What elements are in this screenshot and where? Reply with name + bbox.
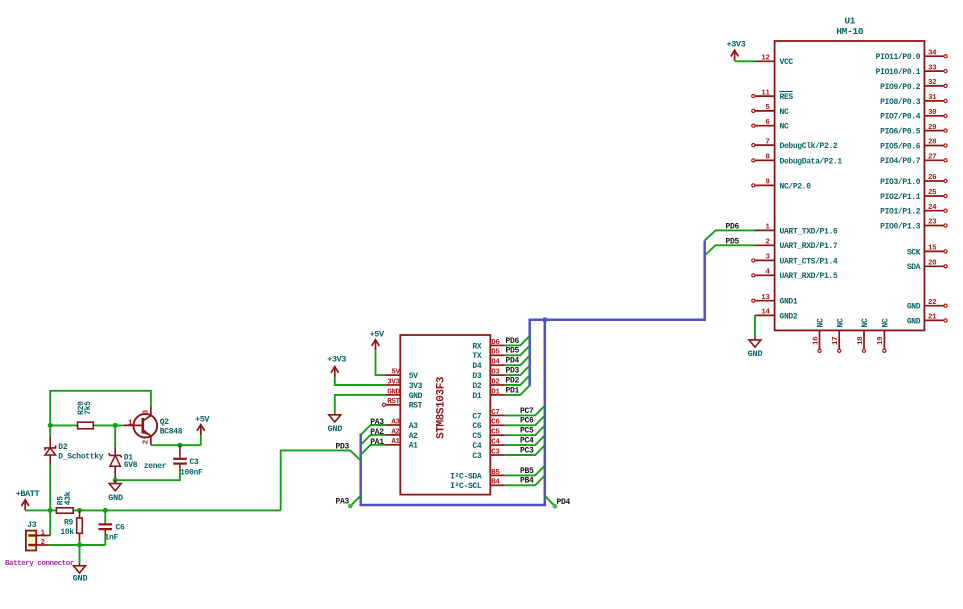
U1 pin 14 (GND2) xyxy=(755,309,798,322)
U1 pin 27 (PIO4/P0.7) xyxy=(880,154,947,167)
wire U2 to PC4 with bus entry xyxy=(505,435,545,445)
svg-text:D1: D1 xyxy=(491,388,500,396)
wire PA3 to U2 with bus entry xyxy=(361,425,386,435)
svg-text:27: 27 xyxy=(928,154,936,162)
resistor R20 xyxy=(77,401,94,429)
wire U1 GND2 to ground xyxy=(754,315,756,340)
svg-text:D5: D5 xyxy=(491,349,500,357)
svg-text:I²C-SCL: I²C-SCL xyxy=(450,482,482,491)
svg-text:GND: GND xyxy=(907,303,921,312)
svg-text:NC: NC xyxy=(882,318,891,327)
svg-text:12: 12 xyxy=(761,55,770,63)
svg-text:PIO9/P0.2: PIO9/P0.2 xyxy=(880,83,921,92)
svg-text:C6: C6 xyxy=(491,419,500,427)
svg-text:A1: A1 xyxy=(409,442,418,451)
wire PD6 to U1 pin1 xyxy=(705,230,755,240)
wire U2 to PC6 with bus entry xyxy=(505,416,545,426)
ground symbol (U1 GND2) xyxy=(748,340,763,359)
svg-text:RST: RST xyxy=(387,398,400,406)
svg-text:PIO3/P1.0: PIO3/P1.0 xyxy=(880,178,921,187)
U1 pin 17 (NC) xyxy=(832,318,845,352)
U2 pin C6 (C6) xyxy=(472,419,505,432)
svg-text:D_Schottky: D_Schottky xyxy=(58,452,104,461)
wire U2 GND pin to ground xyxy=(335,395,386,415)
U2 pin A1 (A1) xyxy=(386,438,419,451)
svg-text:RES: RES xyxy=(780,93,794,102)
wire +5V arrow stem xyxy=(200,435,202,445)
svg-text:PA1: PA1 xyxy=(370,438,384,447)
wire U2 to PC7 with bus entry xyxy=(505,406,545,416)
svg-text:1: 1 xyxy=(128,420,133,428)
svg-text:21: 21 xyxy=(928,314,937,322)
U2 pin D2 (D2) xyxy=(472,378,505,391)
U1 pin 9 (NC/P2.0) xyxy=(752,179,812,192)
svg-text:A1: A1 xyxy=(391,438,400,446)
svg-text:PB4: PB4 xyxy=(520,477,534,486)
node junction emitter/C3 xyxy=(177,443,182,448)
U2 pin C3 (C3) xyxy=(472,448,505,461)
node junction R9 top xyxy=(77,508,82,513)
transistor Q2 BC848 xyxy=(124,406,183,445)
svg-text:RST: RST xyxy=(409,402,423,411)
svg-text:PD5: PD5 xyxy=(726,237,740,246)
ground symbol (U2) xyxy=(327,415,342,434)
svg-text:C5: C5 xyxy=(491,429,500,437)
capacitor C3 100nF xyxy=(173,445,203,478)
U2 pin 5V (5V) xyxy=(386,369,419,382)
svg-text:19: 19 xyxy=(877,336,885,345)
U1 pin 26 (PIO3/P1.0) xyxy=(880,174,947,187)
wire C3 bottom to ground node xyxy=(115,470,180,480)
svg-text:PD5: PD5 xyxy=(506,347,520,356)
svg-text:GND: GND xyxy=(748,349,763,359)
U2 pin 3V3 (3V3) xyxy=(386,378,423,391)
svg-text:5V: 5V xyxy=(391,369,400,377)
svg-text:2: 2 xyxy=(143,439,151,444)
svg-text:PIO8/P0.3: PIO8/P0.3 xyxy=(880,98,921,107)
svg-text:3: 3 xyxy=(143,409,151,414)
svg-text:PIO1/P1.2: PIO1/P1.2 xyxy=(880,208,921,217)
svg-text:D4: D4 xyxy=(472,362,481,371)
wire to bottom ground xyxy=(79,545,81,566)
svg-text:PIO4/P0.7: PIO4/P0.7 xyxy=(880,157,921,166)
bus junction xyxy=(542,317,547,322)
wire PA2 to U2 with bus entry xyxy=(361,435,386,445)
svg-text:GND: GND xyxy=(73,573,88,583)
svg-text:43k: 43k xyxy=(64,491,73,505)
svg-text:GND: GND xyxy=(907,317,921,326)
svg-text:D2: D2 xyxy=(491,378,500,386)
svg-text:31: 31 xyxy=(928,94,937,102)
svg-text:30: 30 xyxy=(928,109,937,117)
svg-text:C5: C5 xyxy=(472,432,481,441)
U2 pin D6 (RX) xyxy=(472,339,505,352)
svg-text:PB5: PB5 xyxy=(520,467,534,476)
wire U2 to PD4 with bus entry xyxy=(505,356,530,366)
svg-text:PC6: PC6 xyxy=(520,417,534,426)
bus entry PA3 (dangling) xyxy=(348,496,361,509)
svg-text:I²C-SDA: I²C-SDA xyxy=(450,472,482,481)
U1 pin 30 (PIO7/P0.4) xyxy=(880,109,947,122)
op-amp U2 STM8S103F3 body xyxy=(400,335,490,495)
svg-text:R9: R9 xyxy=(64,518,74,527)
svg-text:20: 20 xyxy=(928,260,937,268)
svg-text:HM-10: HM-10 xyxy=(836,26,864,37)
wire base node down to D1 xyxy=(114,425,116,446)
U1 pin 19 (NC) xyxy=(877,318,890,352)
wire bottom ground row xyxy=(49,544,106,546)
wire emitter row xyxy=(151,444,201,446)
svg-text:B4: B4 xyxy=(491,479,500,487)
svg-text:C7: C7 xyxy=(472,412,481,421)
wire R9 bottom xyxy=(79,541,81,545)
U1 pin 8 (DebugData/P2.1) xyxy=(752,154,843,167)
power +5V (U2) xyxy=(370,329,385,350)
U1 pin 33 (PIO10/P0.1) xyxy=(876,64,947,77)
svg-text:BC848: BC848 xyxy=(160,427,183,436)
svg-text:PIO6/P0.5: PIO6/P0.5 xyxy=(880,128,921,137)
power +5V (emitter) xyxy=(195,414,210,435)
U1 pin 18 (NC) xyxy=(857,318,870,352)
svg-text:C7: C7 xyxy=(491,409,499,417)
U1 pin 1 (UART_TXD/P1.6) xyxy=(755,224,838,237)
wire +3V3 to U1 VCC xyxy=(735,60,755,62)
wire U2 to PD3 with bus entry xyxy=(505,366,530,376)
svg-text:33: 33 xyxy=(928,64,937,72)
U1 pin 31 (PIO8/P0.3) xyxy=(880,94,947,107)
U1 pin 4 (UART_RXD/P1.5) xyxy=(752,269,838,282)
diode D2 D_Schottky xyxy=(45,436,104,465)
U2 pin RST (RST) xyxy=(382,398,422,411)
svg-text:D3: D3 xyxy=(491,369,500,377)
svg-text:16: 16 xyxy=(812,336,820,345)
U2 pin B4 (I²C-SCL) xyxy=(450,479,505,492)
svg-text:GND: GND xyxy=(327,424,342,434)
U1 pin 22 (GND) xyxy=(907,299,947,312)
svg-text:3V3: 3V3 xyxy=(387,378,400,386)
U1 pin 29 (PIO6/P0.5) xyxy=(880,124,947,137)
svg-text:RX: RX xyxy=(472,342,481,351)
svg-text:13: 13 xyxy=(761,294,770,302)
U2 pin B5 (I²C-SDA) xyxy=(450,469,505,482)
U1 pin 6 (NC) xyxy=(752,119,789,132)
wire D1 to ground xyxy=(114,480,116,483)
wire U2 to PB4 with bus entry xyxy=(505,476,545,486)
svg-text:1nF: 1nF xyxy=(105,534,119,543)
U1 pin 12 (VCC) xyxy=(755,55,793,68)
svg-text:15: 15 xyxy=(928,245,937,253)
svg-text:STM8S103F3: STM8S103F3 xyxy=(436,376,448,439)
svg-text:D2: D2 xyxy=(58,443,68,452)
svg-text:D1: D1 xyxy=(472,392,481,401)
svg-text:6V8: 6V8 xyxy=(124,461,138,470)
wire +BATT rail xyxy=(25,509,281,511)
bus upper run (PD bus to HM-10) xyxy=(530,241,705,387)
node junction R9 bottom xyxy=(77,543,82,548)
svg-text:GND: GND xyxy=(108,493,123,503)
U1 pin 11 (RES) xyxy=(752,89,794,102)
svg-text:+5V: +5V xyxy=(370,329,385,339)
svg-text:zener: zener xyxy=(144,462,167,471)
wire U2 to PD2 with bus entry xyxy=(505,375,530,385)
svg-text:C4: C4 xyxy=(472,442,481,451)
wire PA1 to U2 with bus entry xyxy=(361,445,386,455)
U2 pin D5 (TX) xyxy=(472,349,505,362)
svg-text:A2: A2 xyxy=(409,432,418,441)
U2 pin C5 (C5) xyxy=(472,429,505,442)
svg-text:17: 17 xyxy=(832,337,840,345)
svg-text:+5V: +5V xyxy=(195,414,210,424)
svg-text:C3: C3 xyxy=(189,458,199,467)
resistor R9 10k xyxy=(60,510,82,541)
svg-text:23: 23 xyxy=(928,219,937,227)
svg-text:PC4: PC4 xyxy=(520,437,534,446)
power +3V3 (U2) xyxy=(327,355,346,378)
svg-text:UART_TXD/P1.6: UART_TXD/P1.6 xyxy=(780,227,838,236)
resistor R5 43k xyxy=(56,491,73,513)
wire PD3 (battery sense) with bus entry xyxy=(281,450,361,510)
U1 pin 3 (UART_CTS/P1.4) xyxy=(752,254,838,267)
svg-text:3V3: 3V3 xyxy=(409,382,423,391)
svg-text:Q2: Q2 xyxy=(160,418,170,427)
svg-text:32: 32 xyxy=(928,79,937,87)
svg-text:PD6: PD6 xyxy=(506,337,520,346)
svg-text:29: 29 xyxy=(928,124,937,132)
svg-text:UART_RXD/P1.7: UART_RXD/P1.7 xyxy=(780,242,838,251)
power +BATT xyxy=(16,489,40,510)
svg-text:Battery connector: Battery connector xyxy=(5,560,74,568)
svg-text:C3: C3 xyxy=(491,448,500,456)
svg-text:C6: C6 xyxy=(116,524,126,533)
svg-text:NC/P2.0: NC/P2.0 xyxy=(780,182,812,191)
svg-text:25: 25 xyxy=(928,189,937,197)
U1 pin 5 (NC) xyxy=(752,104,789,117)
svg-text:PIO2/P1.1: PIO2/P1.1 xyxy=(880,193,921,202)
svg-text:GND: GND xyxy=(387,388,400,396)
capacitor C6 1nF xyxy=(99,510,126,542)
svg-text:PD2: PD2 xyxy=(506,376,520,385)
svg-text:11: 11 xyxy=(761,89,770,97)
svg-text:7: 7 xyxy=(765,138,769,146)
wire D2 anode down to +BATT rail xyxy=(49,464,51,535)
svg-text:+3V3: +3V3 xyxy=(327,355,346,365)
svg-text:7k5: 7k5 xyxy=(84,401,93,415)
wire U2 to PC3 with bus entry xyxy=(505,445,545,455)
node junction base/D1 xyxy=(113,423,118,428)
svg-text:34: 34 xyxy=(928,49,937,57)
wire PD5 to U1 pin2 xyxy=(705,245,755,255)
svg-text:PC3: PC3 xyxy=(520,446,534,455)
svg-text:B5: B5 xyxy=(491,469,500,477)
power +3V3 (U1 VCC) xyxy=(727,39,746,61)
svg-text:A3: A3 xyxy=(391,418,400,426)
svg-text:TX: TX xyxy=(472,352,481,361)
U1 pin 24 (PIO1/P1.2) xyxy=(880,204,947,217)
wire U2 to PD6 with bus entry xyxy=(505,336,530,346)
svg-text:NC: NC xyxy=(836,318,845,327)
node junction C6 top xyxy=(103,508,108,513)
ground symbol (battery) xyxy=(73,566,88,584)
svg-text:C4: C4 xyxy=(491,439,500,447)
svg-text:GND2: GND2 xyxy=(780,312,798,321)
svg-text:28: 28 xyxy=(928,139,937,147)
svg-text:100nF: 100nF xyxy=(180,469,203,478)
U2 pin D4 (D4) xyxy=(472,359,505,372)
svg-text:24: 24 xyxy=(928,204,937,212)
svg-text:NC: NC xyxy=(780,123,789,132)
svg-text:GND1: GND1 xyxy=(780,298,798,307)
svg-text:26: 26 xyxy=(928,174,937,182)
U2 pin GND (GND) xyxy=(386,388,423,401)
svg-text:5V: 5V xyxy=(409,372,418,381)
svg-text:PC5: PC5 xyxy=(520,427,534,436)
svg-text:PIO7/P0.4: PIO7/P0.4 xyxy=(880,113,921,122)
svg-text:PD1: PD1 xyxy=(506,386,520,395)
U1 pin 7 (DebugClk/P2.2) xyxy=(752,138,838,151)
svg-text:+3V3: +3V3 xyxy=(727,39,746,49)
wire C6 bottom xyxy=(104,535,106,545)
connector J3 battery xyxy=(26,521,50,551)
U2 pin D1 (D1) xyxy=(472,388,505,401)
svg-text:PA3: PA3 xyxy=(336,498,350,507)
U1 pin 20 (SDA) xyxy=(907,260,947,273)
svg-text:SCK: SCK xyxy=(907,248,921,257)
U1 pin 21 (GND) xyxy=(907,314,947,327)
svg-text:NC: NC xyxy=(817,318,826,327)
wire U2 to PD1 with bus entry xyxy=(505,385,530,395)
svg-text:VCC: VCC xyxy=(780,58,794,67)
U1 pin 32 (PIO9/P0.2) xyxy=(880,79,947,92)
U1 pin 16 (NC) xyxy=(812,318,825,352)
U2 pin A3 (A3) xyxy=(386,418,419,431)
U2 pin D3 (D3) xyxy=(472,369,505,382)
wire U2 to PC5 with bus entry xyxy=(505,425,545,435)
wire top loop (D2 to Q2 collector) xyxy=(50,391,151,436)
svg-text:PD3: PD3 xyxy=(336,443,350,452)
svg-text:22: 22 xyxy=(928,299,937,307)
svg-text:D2: D2 xyxy=(472,382,481,391)
U1 pin 15 (SCK) xyxy=(907,245,947,258)
svg-text:D6: D6 xyxy=(491,339,500,347)
svg-text:+BATT: +BATT xyxy=(16,489,40,499)
svg-text:SDA: SDA xyxy=(907,263,921,272)
bus entry PD4 (dangling) xyxy=(545,496,558,509)
U1 pin 25 (PIO2/P1.1) xyxy=(880,189,947,202)
U2 pin C4 (C4) xyxy=(472,439,505,452)
wire U2 to PD5 with bus entry xyxy=(505,346,530,356)
diode D1 6V8 zener xyxy=(109,447,167,480)
svg-text:PIO10/P0.1: PIO10/P0.1 xyxy=(876,68,921,77)
svg-text:C6: C6 xyxy=(472,422,481,431)
svg-text:18: 18 xyxy=(857,336,865,345)
svg-text:J3: J3 xyxy=(27,521,37,530)
svg-text:PIO0/P1.3: PIO0/P1.3 xyxy=(880,222,921,231)
svg-text:PA3: PA3 xyxy=(370,418,384,427)
svg-text:PIO11/P0.0: PIO11/P0.0 xyxy=(876,53,921,62)
wire +5V to U2 5V pin xyxy=(376,350,386,375)
U1 pin 2 (UART_RXD/P1.7) xyxy=(755,239,838,252)
op-amp U1 HM-10 body xyxy=(775,41,925,330)
svg-text:GND: GND xyxy=(409,392,423,401)
node junction D2/R20 xyxy=(48,423,53,428)
svg-text:NC: NC xyxy=(780,108,789,117)
bus lower run (PA/PC/PB) xyxy=(361,320,545,505)
svg-text:NC: NC xyxy=(861,318,870,327)
svg-text:D4: D4 xyxy=(491,359,500,367)
wire +3V3 to U2 3V3 pin xyxy=(335,377,386,385)
svg-text:D3: D3 xyxy=(472,372,481,381)
node junction D1/C3 ground xyxy=(113,478,118,483)
svg-text:DebugData/P2.1: DebugData/P2.1 xyxy=(780,157,843,166)
svg-text:14: 14 xyxy=(761,309,770,317)
wire base row (node to R20/Q2) xyxy=(50,424,124,426)
node junction +BATT/D2 xyxy=(48,508,53,513)
svg-text:C3: C3 xyxy=(472,452,481,461)
svg-text:UART_RXD/P1.5: UART_RXD/P1.5 xyxy=(780,272,838,281)
U1 pin 13 (GND1) xyxy=(752,294,798,307)
svg-text:PD3: PD3 xyxy=(506,367,520,376)
U1 pin 23 (PIO0/P1.3) xyxy=(880,219,947,232)
svg-text:PA2: PA2 xyxy=(370,428,384,437)
svg-text:UART_CTS/P1.4: UART_CTS/P1.4 xyxy=(780,257,838,266)
svg-text:DebugClk/P2.2: DebugClk/P2.2 xyxy=(780,142,838,151)
svg-text:PIO5/P0.6: PIO5/P0.6 xyxy=(880,142,921,151)
svg-text:PD6: PD6 xyxy=(726,222,740,231)
U1 pin 34 (PIO11/P0.0) xyxy=(876,49,947,62)
U2 pin C7 (C7) xyxy=(472,409,505,422)
svg-text:PC7: PC7 xyxy=(520,407,534,416)
svg-text:A3: A3 xyxy=(409,422,418,431)
svg-text:10k: 10k xyxy=(60,528,74,537)
svg-text:U1: U1 xyxy=(844,16,855,27)
svg-text:A2: A2 xyxy=(391,428,400,436)
svg-text:PD4: PD4 xyxy=(557,498,571,507)
ground symbol (D1/C3) xyxy=(108,484,123,503)
wire U2 to PB5 with bus entry xyxy=(505,466,545,476)
U1 pin 28 (PIO5/P0.6) xyxy=(880,139,947,152)
svg-text:PD4: PD4 xyxy=(506,357,520,366)
U2 pin A2 (A2) xyxy=(386,428,419,441)
